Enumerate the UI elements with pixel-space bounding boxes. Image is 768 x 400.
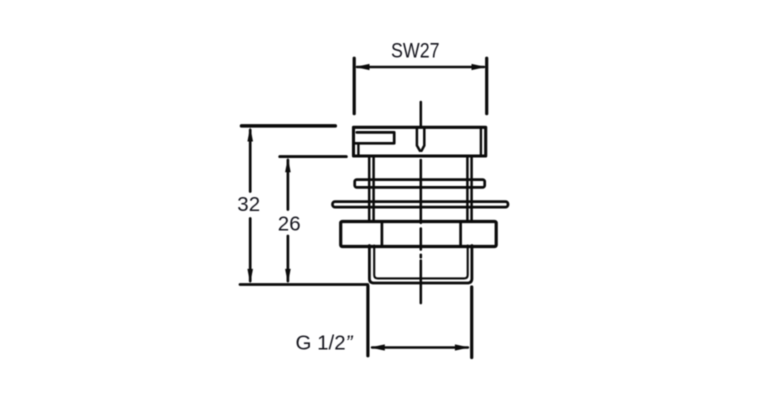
dim 32 line lower segment	[249, 219, 252, 282]
nut facet line right	[459, 222, 462, 247]
centerline	[420, 102, 423, 303]
washer W2	[333, 202, 509, 208]
washer W1	[355, 180, 485, 188]
SW27 arrow left	[355, 64, 370, 70]
thread root lines	[374, 246, 468, 279]
dim 26 arrow up	[285, 158, 291, 173]
stem upper right lines	[467, 156, 471, 221]
threaded stem outer outline	[369, 246, 472, 284]
dimension G extension line right	[470, 287, 473, 358]
head slot	[355, 132, 395, 143]
dim 26 line upper segment	[287, 160, 290, 210]
SW27 arrow right	[472, 64, 487, 70]
dim 32 line upper segment	[249, 130, 252, 192]
dim 32 arrow up	[247, 127, 253, 142]
dim 26 line lower segment	[287, 236, 290, 281]
G arrow right	[455, 344, 470, 350]
nut facet line left	[381, 222, 384, 247]
dimension SW27 extension line left	[353, 58, 356, 113]
dim 26 arrow down	[285, 269, 291, 284]
dim 26 reference line	[280, 155, 347, 158]
dimension G extension line left	[366, 286, 369, 356]
dimension G line	[372, 346, 468, 348]
head left chamfer line	[357, 144, 359, 156]
dim 32 top reference line	[242, 124, 336, 128]
hex nut outline	[341, 222, 497, 247]
svg-text:SW27: SW27	[391, 40, 440, 63]
head center bore lines	[417, 127, 424, 151]
head cap outline	[354, 127, 486, 156]
G arrow left	[370, 344, 385, 350]
svg-text:G 1/2”: G 1/2”	[296, 331, 354, 354]
bottom reference line	[240, 283, 368, 286]
svg-text:32: 32	[237, 193, 260, 216]
dimension SW27 line	[357, 66, 484, 68]
head right chamfer line	[480, 127, 482, 156]
dim 32 arrow down	[247, 269, 253, 284]
stem upper left lines	[369, 156, 373, 221]
dimension SW27 extension line right	[485, 58, 488, 113]
svg-text:26: 26	[278, 212, 301, 235]
